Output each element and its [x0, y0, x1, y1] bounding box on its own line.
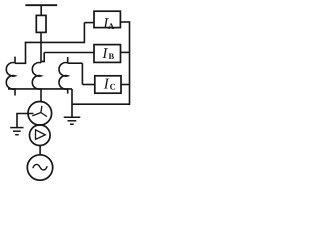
wire CT2 lead horizontal	[41, 61, 44, 63]
wire A horizontal	[25, 41, 85, 43]
ammeter IC box	[95, 76, 121, 93]
sine symbol	[33, 164, 47, 169]
wire B to ammeter	[44, 52, 94, 54]
wire C to ammeter	[82, 84, 94, 86]
svg-text:B: B	[109, 51, 115, 61]
CT2 winding	[32, 63, 41, 90]
wire CT1 lead vertical	[25, 42, 27, 64]
wire IB right	[121, 51, 130, 53]
CT3 primary stub	[67, 57, 69, 63]
wire fuse down to CT2	[40, 32, 42, 62]
wire bus to fuse	[40, 5, 42, 15]
fuse FU	[36, 15, 46, 32]
transformer star winding circle	[28, 102, 52, 126]
CT1 primary stub	[14, 57, 16, 63]
wire CT3 lead horizontal	[68, 62, 83, 64]
CT1 winding	[6, 63, 15, 90]
delta symbol	[36, 130, 46, 140]
wire transformer to generator	[39, 146, 41, 155]
wire A riser	[83, 23, 85, 44]
svg-text:A: A	[108, 21, 115, 31]
wire CT2 down to transformer	[40, 89, 42, 102]
wire CT3 lead vertical	[81, 63, 83, 84]
wire return bus right	[72, 21, 130, 104]
wire A to ammeter	[84, 22, 94, 24]
transformer delta winding circle	[30, 125, 51, 146]
wire IA right	[120, 21, 129, 23]
wire CT secondary common bus	[8, 88, 72, 90]
star symbol	[32, 106, 47, 117]
svg-text:C: C	[110, 81, 116, 91]
CT1 tail	[14, 89, 16, 96]
ammeter IB box	[94, 45, 121, 63]
busbar top	[25, 4, 57, 6]
generator circle	[27, 155, 52, 180]
wire CT1 lead horizontal	[15, 62, 26, 64]
svg-text:I: I	[101, 46, 108, 62]
ground G2	[10, 128, 23, 135]
ground G1	[64, 117, 81, 124]
wire CT2 lead vertical	[43, 53, 45, 63]
wire neutral to ground	[17, 114, 34, 128]
wire down to ground G1	[71, 89, 73, 117]
wire IC right	[121, 84, 130, 86]
CT3 tail	[67, 89, 69, 94]
CT3 winding	[59, 63, 68, 90]
ammeter IA box	[94, 11, 120, 27]
